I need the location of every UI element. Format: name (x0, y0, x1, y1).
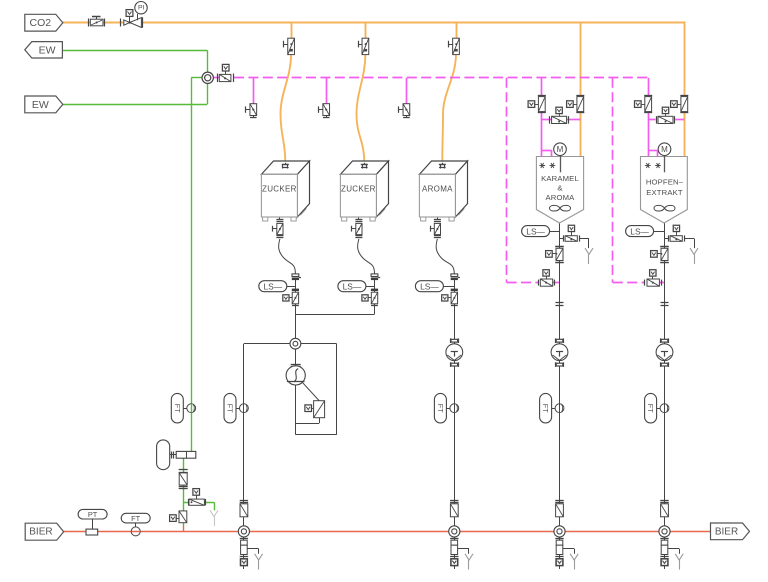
svg-text:AROMA: AROMA (422, 185, 453, 194)
svg-text:FT: FT (436, 404, 445, 413)
svg-text:FT: FT (541, 404, 550, 413)
svg-text:M: M (661, 145, 668, 154)
svg-text:EW: EW (39, 44, 56, 56)
svg-text:KARAMEL: KARAMEL (541, 174, 579, 183)
svg-text:EW: EW (32, 99, 49, 111)
svg-text:FT: FT (646, 404, 655, 413)
svg-text:HOPFEN–: HOPFEN– (646, 177, 684, 186)
svg-text:BIER: BIER (715, 526, 738, 537)
svg-text:LS—: LS— (343, 282, 362, 292)
svg-text:FT: FT (173, 404, 182, 413)
svg-text:EXTRAKT: EXTRAKT (646, 188, 683, 197)
svg-text:PT: PT (88, 510, 98, 519)
svg-text:AROMA: AROMA (546, 193, 576, 202)
svg-text:LS—: LS— (263, 282, 282, 292)
svg-text:FT: FT (226, 404, 235, 413)
svg-text:PI: PI (138, 5, 145, 12)
svg-text:&: & (557, 184, 562, 193)
svg-text:LS—: LS— (526, 226, 545, 236)
svg-text:LS—: LS— (420, 282, 439, 292)
svg-text:CO2: CO2 (30, 17, 52, 29)
svg-text:ZUCKER: ZUCKER (262, 185, 297, 194)
svg-text:BIER: BIER (29, 527, 52, 538)
svg-text:ZUCKER: ZUCKER (341, 185, 376, 194)
svg-text:LS—: LS— (630, 226, 649, 236)
svg-text:FT: FT (131, 514, 141, 523)
svg-text:M: M (557, 145, 564, 154)
